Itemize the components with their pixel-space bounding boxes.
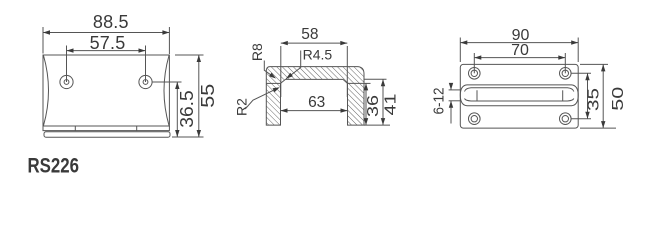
hole bottom-right outer (560, 113, 572, 125)
dim 63 line (281, 110, 348, 112)
svg-text:35: 35 (586, 88, 603, 111)
dim 35 line (587, 73, 589, 118)
svg-text:70: 70 (511, 42, 529, 59)
hole top-left outer (469, 68, 481, 80)
dim 90 line (460, 42, 578, 44)
dim 6-12 slot extension lines (449, 89, 461, 91)
right view band tick right (562, 90, 564, 101)
svg-text:R4.5: R4.5 (303, 47, 333, 63)
svg-text:50: 50 (610, 87, 627, 111)
right view plate (460, 64, 578, 128)
right view band inner bottom line (465, 99, 574, 102)
dim 70 line (474, 57, 565, 59)
right view band inner top line (465, 88, 574, 92)
right hole outer (139, 75, 152, 88)
svg-text:36: 36 (365, 95, 382, 117)
left view band tick 2 (136, 126, 138, 131)
right view band tick left (476, 90, 478, 101)
dim 35 extension lines (571, 72, 591, 74)
svg-text:R8: R8 (249, 43, 265, 61)
left view left end arc (44, 56, 49, 126)
dim 88.5 line (43, 32, 169, 34)
R2 leader (245, 88, 278, 109)
svg-text:41: 41 (383, 93, 400, 115)
dim 57.5 extension lines (66, 46, 68, 83)
svg-text:57.5: 57.5 (90, 33, 126, 53)
svg-text:88.5: 88.5 (93, 12, 129, 32)
dim 36 top extension (364, 82, 371, 84)
dim 55 bottom extension line (172, 136, 204, 138)
dim 55 extension line top (175, 54, 204, 56)
svg-text:36.5: 36.5 (177, 90, 197, 128)
left view base strip (44, 132, 170, 137)
section bottom extension line (364, 124, 390, 126)
dim 41 top extension (364, 78, 387, 80)
left hole outer (60, 75, 73, 88)
svg-text:63: 63 (308, 94, 325, 111)
dim 58 line (281, 42, 348, 44)
left hole inner (64, 80, 69, 85)
section left leg step line (266, 82, 280, 84)
left view body outline (43, 55, 169, 126)
dim 36.5 extension line top (152, 81, 182, 83)
dim 58 extension lines (280, 46, 282, 97)
dim 70 extension lines (473, 53, 475, 73)
svg-text:58: 58 (301, 26, 318, 43)
R8 leader (264, 61, 274, 78)
dim 6-12 line (450, 84, 452, 90)
dim 50 extension lines (580, 63, 608, 65)
left view bottom band (43, 126, 169, 131)
hole bottom-left outer (469, 113, 481, 125)
dim 36 line (365, 83, 367, 125)
dim 55 line (198, 55, 200, 137)
hole bottom-left inner (471, 116, 477, 122)
hole top-right outer (560, 68, 572, 80)
dim 36.5 line (176, 82, 178, 137)
dim 88.5 extension lines (42, 27, 44, 54)
dim 57.5 line (67, 50, 146, 52)
R4.5 leader (286, 51, 301, 79)
dim 50 line (602, 64, 604, 128)
svg-text:6-12: 6-12 (431, 88, 448, 115)
hole top-left inner (471, 70, 477, 76)
left view band tick 1 (74, 126, 76, 131)
section body hatched (266, 67, 364, 126)
svg-text:55: 55 (198, 84, 218, 108)
dim 90 extension lines (459, 38, 461, 63)
dim 41 line (382, 79, 384, 125)
right view band outer (460, 85, 578, 106)
hole bottom-right inner (562, 116, 568, 122)
right hole inner (143, 80, 148, 85)
hole top-right inner (562, 70, 568, 76)
svg-text:RS226: RS226 (28, 155, 80, 178)
section right leg step line (348, 82, 365, 84)
left view right end arc (164, 56, 169, 126)
